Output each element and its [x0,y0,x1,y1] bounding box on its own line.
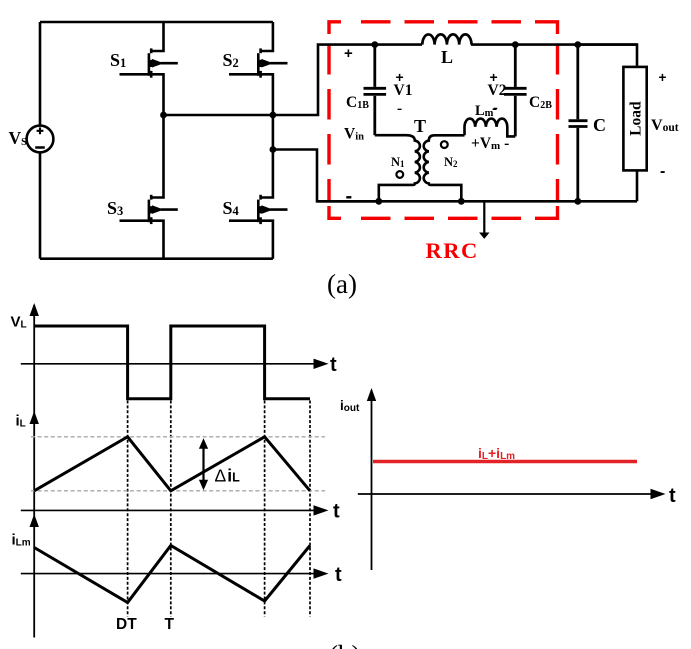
svg-text:C: C [593,115,606,135]
svg-text:T: T [414,116,426,136]
shared y axis [33,305,35,638]
wire bottom [40,257,273,260]
iLm t-axis [21,573,315,575]
dotted vertical T [170,401,172,617]
resistor Load [623,67,646,170]
svg-text:t: t [669,485,676,507]
svg-text:-: - [397,100,402,117]
svg-text:(b): (b) [329,640,360,649]
svg-text:T: T [165,616,175,633]
transistor S1 [120,48,178,77]
svg-text:L: L [441,47,453,67]
wire left leg S1 drain [151,22,164,51]
wire node A to RRC top input [164,45,375,115]
N2 polarity dot [441,141,448,148]
svg-text:-: - [493,100,498,116]
junction C bottom rail [574,198,581,205]
junction N2 bottom rail [458,198,465,205]
svg-text:Load: Load [628,101,645,136]
iL waveform [34,437,310,491]
node B dot [270,146,277,153]
transistor S2 [229,48,288,77]
junction C2B top rail [512,41,519,48]
capacitor C2B [504,45,527,137]
svg-text:V1: V1 [394,82,413,99]
VL waveform [34,326,310,399]
VL y-axis arrow [30,303,39,316]
wire right leg S4 source to bottom [260,221,273,259]
svg-text:t: t [335,564,342,586]
svg-text:t: t [333,501,340,523]
top rail [375,43,637,46]
iL dashed level low [31,490,325,492]
VL t-axis [21,363,315,365]
svg-text:+: + [659,70,667,85]
N1 polarity dot [396,171,403,178]
wire right leg S2 source down through nodes [260,74,273,197]
junction C top rail [574,41,581,48]
capacitor C [569,45,588,202]
node A dot [160,112,167,119]
wire left leg S1 source to node A [151,74,164,115]
iout t-axis [358,493,651,495]
iL y-axis arrow [30,411,39,424]
bottom rail [317,200,637,203]
wire left leg S3 source to bottom [151,221,164,259]
iL dashed level high [31,436,325,438]
svg-text:-: - [346,186,353,208]
ground [483,201,485,233]
wire left upper [39,22,42,126]
wire load branch [578,45,637,202]
svg-text:Δ: Δ [215,466,227,486]
junction C1B top rail [371,41,378,48]
svg-text:DT: DT [116,616,137,633]
inductor L [422,34,471,44]
svg-text:+Vm -: +Vm - [471,135,509,152]
wire left leg node A to S3 drain [151,115,164,198]
iout plot y-axis [371,390,373,570]
delta iL arrow [202,444,204,484]
RRC dashed box [329,22,558,219]
svg-text:V2: V2 [488,82,507,99]
wire node B to RRC bottom input [273,150,379,202]
wire right leg S2 drain [260,22,273,51]
dotted vertical DT [127,401,129,617]
capacitor C1B [364,45,387,136]
transistor S3 [120,195,178,224]
node dot crossing [270,112,277,119]
voltage source Vs [27,126,54,153]
svg-text:(a): (a) [327,269,357,299]
svg-text:+: + [344,45,353,62]
iout red line iL+iLm [373,460,637,464]
dotted vertical 3 [264,401,266,617]
inductor Lm [465,119,516,137]
iLm y-axis arrow [30,514,39,527]
dotted vertical 4 [309,401,311,617]
iL t-axis [21,509,315,511]
junction N1 bottom rail [375,198,382,205]
wire top [40,21,273,24]
transistor S4 [229,195,288,224]
svg-text:t: t [330,354,337,376]
wire left lower [39,152,42,258]
transformer winding N1 [375,135,420,201]
svg-text:RRC: RRC [426,238,479,263]
iLm waveform [34,546,310,603]
transformer winding N2 [424,135,465,201]
svg-text:-: - [660,163,665,180]
